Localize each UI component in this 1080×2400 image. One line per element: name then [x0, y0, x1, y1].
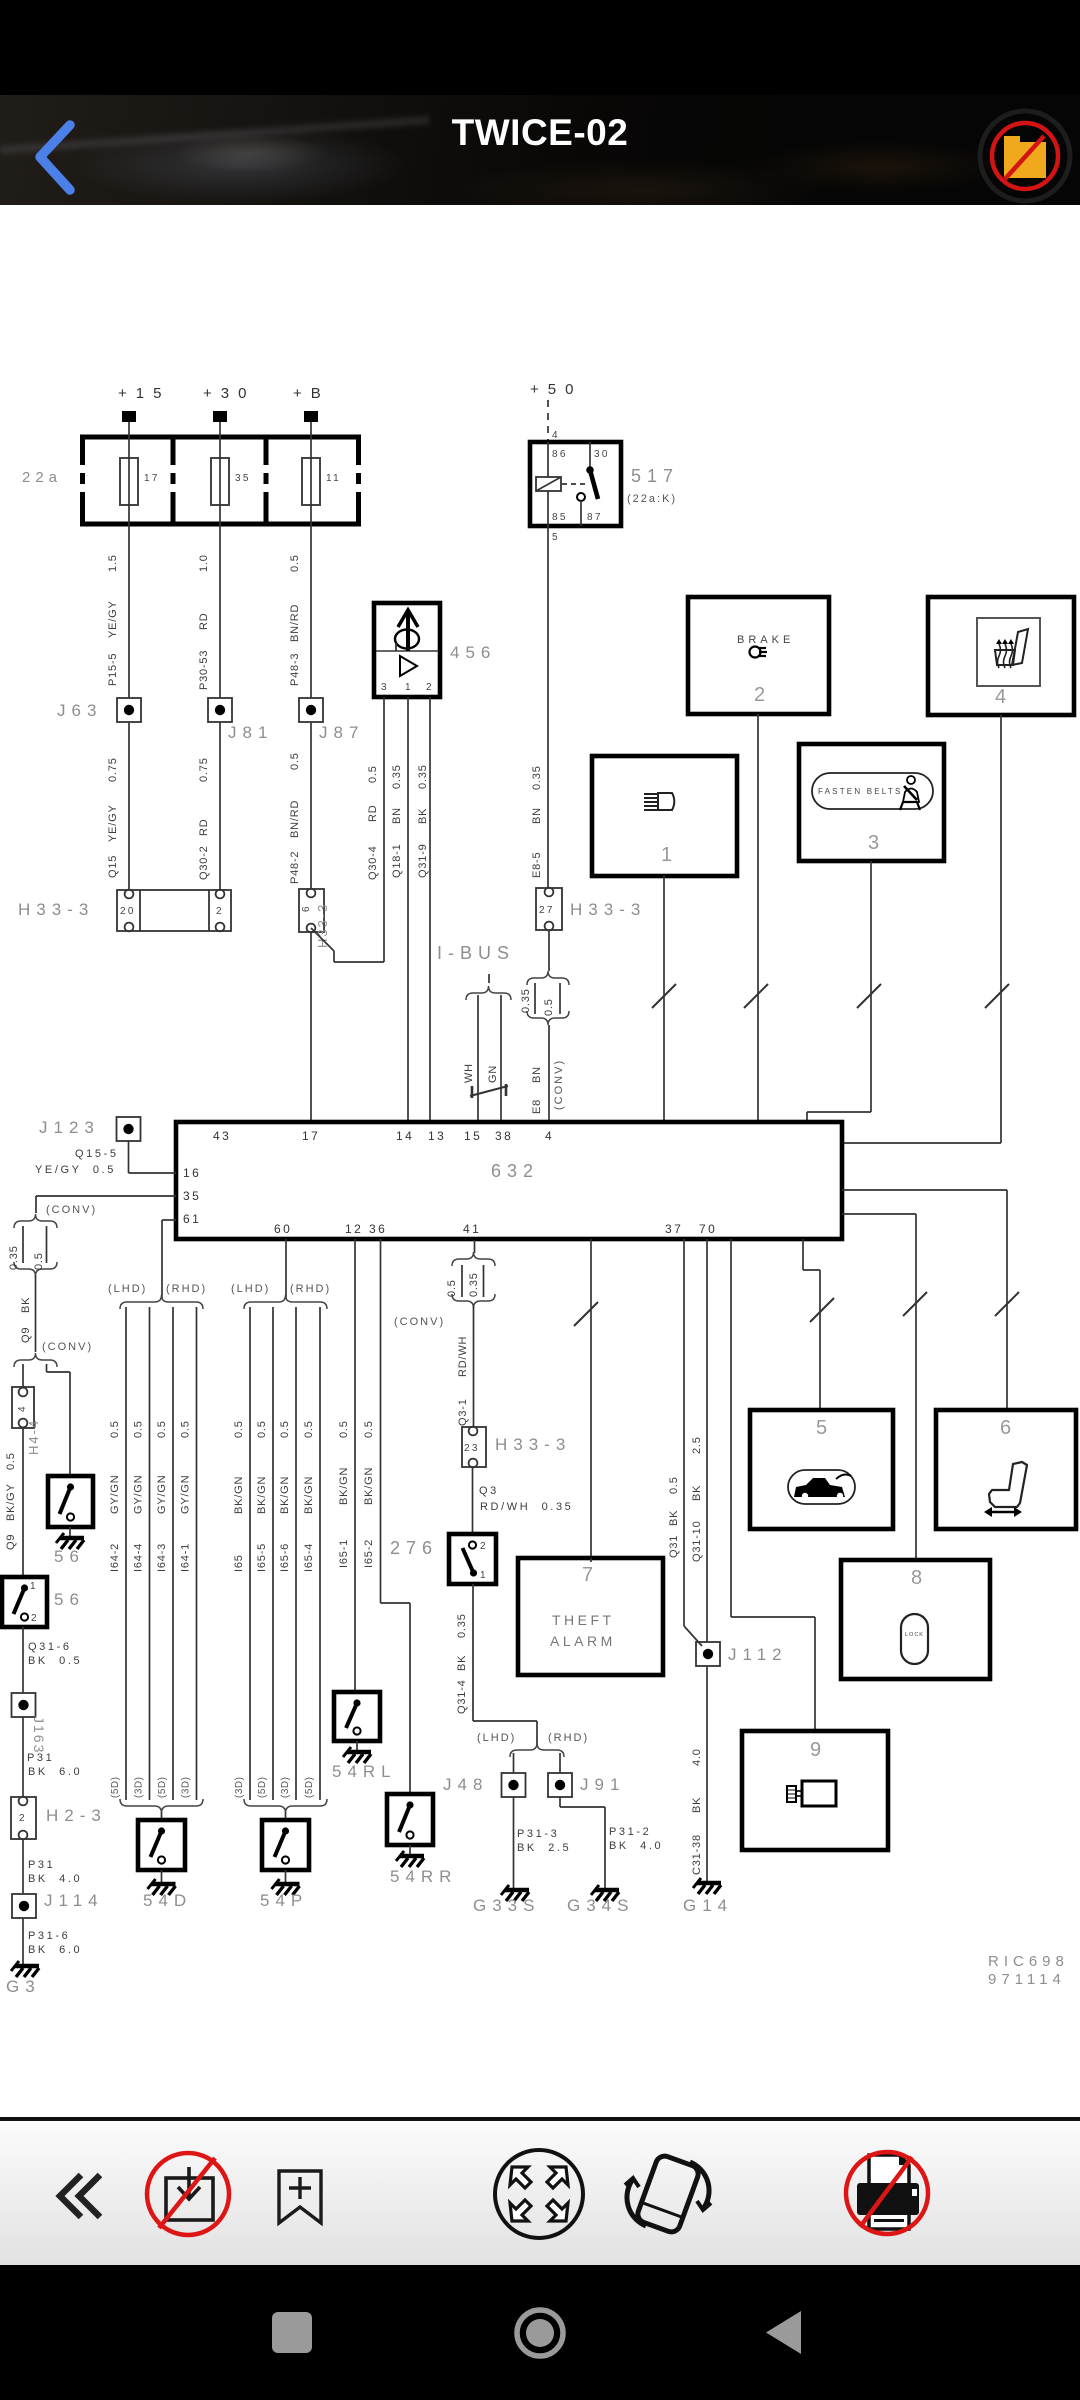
- svg-text:BK/GN: BK/GN: [338, 1467, 350, 1505]
- svg-text:YE/GY: YE/GY: [107, 804, 119, 842]
- wire H33-3 27 to conv brace: [548, 930, 550, 971]
- wire J81 to H33-3: [219, 722, 221, 890]
- ground G14: [693, 1878, 721, 1894]
- wire lamp1 to 632 top: [652, 876, 676, 1122]
- wire I64 group door switch I64-4: [133, 1307, 150, 1800]
- svg-text:0.5: 0.5: [33, 1252, 45, 1270]
- svg-text:RIC698: RIC698: [988, 1953, 1069, 1970]
- svg-text:P31-2: P31-2: [609, 1826, 651, 1838]
- wire I64 group door switch I64-2: [109, 1307, 126, 1800]
- svg-text:2: 2: [216, 906, 224, 917]
- svg-text:RD: RD: [367, 805, 379, 823]
- svg-text:I65-5: I65-5: [256, 1543, 268, 1572]
- svg-text:+B: +B: [293, 385, 330, 402]
- svg-text:J91: J91: [580, 1775, 625, 1794]
- lamp box 1 headlight indicator: [592, 756, 737, 876]
- svg-text:23: 23: [464, 1443, 480, 1454]
- svg-text:RD/WH 0.35: RD/WH 0.35: [480, 1501, 573, 1513]
- svg-text:Q9: Q9: [20, 1327, 32, 1343]
- wire J123 to 632 pin16: [129, 1141, 177, 1173]
- connector H33-3 pin 6 (J87 wire): [299, 889, 324, 933]
- svg-text:3: 3: [868, 832, 879, 854]
- splice J123: [117, 1117, 141, 1141]
- svg-text:86: 86: [552, 449, 568, 460]
- ground G3: [11, 1961, 39, 1977]
- fuse box 22a: [80, 435, 361, 526]
- wire I65 group door switch I65-5: [256, 1307, 273, 1800]
- switch 276 pins 2/1: [449, 1534, 496, 1584]
- brace group1 merge: [120, 1799, 203, 1820]
- label wire BK 0.35 Q31-9: [417, 764, 429, 878]
- svg-text:BN: BN: [531, 1066, 543, 1083]
- wire J91 to G34S: [560, 1797, 605, 1888]
- wire 632 pin70 through J112: [691, 1239, 707, 1642]
- svg-text:Q18-1: Q18-1: [391, 843, 403, 878]
- svg-text:BN/RD: BN/RD: [289, 800, 301, 838]
- svg-text:G34S: G34S: [567, 1896, 634, 1915]
- svg-text:J123: J123: [39, 1118, 100, 1137]
- splice J87: [299, 698, 323, 722]
- svg-text:0.5: 0.5: [180, 1420, 192, 1438]
- svg-text:GY/GN: GY/GN: [156, 1475, 168, 1514]
- wire I65 group door switch I65-6: [279, 1307, 296, 1800]
- label wire BN 0.35 E8-5: [531, 765, 543, 878]
- svg-text:I64-3: I64-3: [156, 1543, 168, 1572]
- svg-text:Q3: Q3: [479, 1485, 499, 1497]
- labels (LHD)(RHD) group1: [108, 1283, 207, 1295]
- svg-text:I65-2: I65-2: [363, 1539, 375, 1568]
- svg-text:0.5: 0.5: [446, 1279, 458, 1297]
- svg-text:Q9: Q9: [5, 1534, 17, 1550]
- wire 456 pin3 branch to H33-3 pin6: [311, 697, 384, 962]
- splice J112: [696, 1642, 720, 1666]
- svg-text:FASTEN BELTS: FASTEN BELTS: [818, 787, 903, 796]
- wire left stub to H4-4: [22, 1364, 24, 1387]
- wire J114 to G3: [22, 1918, 24, 1964]
- svg-text:RD/WH: RD/WH: [457, 1336, 469, 1377]
- svg-text:I65-4: I65-4: [303, 1543, 315, 1572]
- svg-text:0.5: 0.5: [289, 752, 301, 770]
- wire J87 to H33-3: [310, 722, 312, 889]
- svg-text:Q31: Q31: [668, 1535, 680, 1558]
- wire +15 to J63: [128, 422, 130, 698]
- svg-text:P31: P31: [28, 1859, 55, 1871]
- svg-text:6: 6: [301, 904, 312, 912]
- lamp box 4 heated seat indicator: [928, 597, 1074, 715]
- svg-text:(3D): (3D): [234, 1777, 245, 1798]
- svg-text:6: 6: [1000, 1417, 1011, 1439]
- svg-text:C31-38: C31-38: [691, 1834, 703, 1875]
- splice J114: [12, 1894, 36, 1918]
- svg-text:0.5: 0.5: [233, 1420, 245, 1438]
- svg-text:12: 12: [345, 1222, 363, 1236]
- splice J91: [548, 1773, 572, 1797]
- svg-text:0.75: 0.75: [198, 757, 210, 782]
- switch 54RL rear left door: [334, 1692, 380, 1741]
- fuse 17: [120, 458, 160, 505]
- wire 276 to LHD/RHD brace: [456, 1584, 537, 1746]
- wire J112 to G14: [691, 1666, 707, 1881]
- wire H33-3 to switch 276: [472, 1467, 474, 1534]
- svg-text:BK 0.5: BK 0.5: [28, 1655, 82, 1667]
- svg-text:YE/GY: YE/GY: [107, 600, 119, 638]
- svg-text:15: 15: [464, 1129, 482, 1143]
- svg-text:ALARM: ALARM: [550, 1633, 616, 1649]
- svg-text:0.5: 0.5: [338, 1420, 350, 1438]
- wire right stub to switch 56 upper: [47, 1364, 71, 1476]
- label wire BN E8 (CONV): [531, 1059, 565, 1114]
- svg-text:P31-3: P31-3: [517, 1828, 559, 1840]
- svg-text:0.35: 0.35: [531, 765, 543, 790]
- svg-text:G14: G14: [683, 1896, 733, 1915]
- ground G33S: [501, 1885, 529, 1901]
- svg-text:BN: BN: [531, 807, 543, 824]
- svg-text:BK: BK: [417, 808, 429, 824]
- svg-text:0.5: 0.5: [363, 1420, 375, 1438]
- theft alarm box 7: [518, 1558, 663, 1675]
- svg-text:(LHD): (LHD): [477, 1732, 516, 1744]
- labels (LHD)(RHD) J48/J91: [477, 1732, 589, 1744]
- wire 632 to box5: [803, 1239, 834, 1410]
- svg-text:J81: J81: [228, 723, 273, 742]
- svg-text:35: 35: [235, 473, 251, 484]
- svg-text:H33-3: H33-3: [315, 903, 330, 948]
- svg-text:H4-4: H4-4: [26, 1419, 41, 1455]
- svg-text:BK: BK: [456, 1655, 468, 1671]
- wire J163 to H2-3: [22, 1717, 24, 1797]
- svg-text:7: 7: [582, 1564, 593, 1586]
- svg-text:(RHD): (RHD): [290, 1283, 331, 1295]
- svg-text:0.35: 0.35: [520, 988, 532, 1013]
- svg-text:GY/GN: GY/GN: [109, 1475, 121, 1514]
- label P31 BK 6.0: [27, 1752, 82, 1778]
- svg-text:BK/GN: BK/GN: [279, 1476, 291, 1514]
- svg-text:4.0: 4.0: [691, 1748, 703, 1766]
- svg-text:BK/GN: BK/GN: [303, 1476, 315, 1514]
- svg-text:GY/GN: GY/GN: [133, 1475, 145, 1514]
- svg-text:Q15-5: Q15-5: [75, 1148, 119, 1160]
- svg-text:GY/GN: GY/GN: [180, 1475, 192, 1514]
- svg-text:0.5: 0.5: [109, 1420, 121, 1438]
- svg-text:Q31-10: Q31-10: [691, 1521, 703, 1563]
- svg-text:0.5: 0.5: [543, 998, 555, 1016]
- wire to J48: [513, 1753, 515, 1773]
- svg-text:0.5: 0.5: [279, 1420, 291, 1438]
- wire 632 right to box6: [842, 1190, 1019, 1410]
- ground below 54P: [272, 1870, 300, 1895]
- splice J48: [502, 1773, 526, 1797]
- svg-text:J114: J114: [44, 1891, 104, 1910]
- label P31 BK 4.0: [28, 1859, 82, 1885]
- wire lamp3 to 632 top: [807, 861, 881, 1122]
- wire brace to H33-3 23: [457, 1306, 474, 1427]
- svg-text:87: 87: [587, 512, 603, 523]
- svg-text:G33S: G33S: [473, 1896, 540, 1915]
- svg-text:16: 16: [183, 1166, 201, 1180]
- svg-text:1.5: 1.5: [107, 554, 119, 572]
- svg-text:17: 17: [302, 1129, 320, 1143]
- wire 632 pin12 to 54RL: [338, 1239, 355, 1692]
- svg-text:(RHD): (RHD): [166, 1283, 207, 1295]
- label wire BK Q9: [20, 1297, 32, 1343]
- brace pair left conv alternatives: [8, 1214, 57, 1276]
- svg-text:54RL: 54RL: [332, 1762, 397, 1781]
- svg-text:54D: 54D: [143, 1891, 192, 1910]
- svg-text:BK: BK: [691, 1485, 703, 1501]
- svg-text:14: 14: [396, 1129, 414, 1143]
- svg-text:P31-6: P31-6: [28, 1930, 70, 1942]
- svg-text:I64-1: I64-1: [180, 1543, 192, 1572]
- wire lamp2 to 632 top: [744, 714, 768, 1122]
- label Q15-5 YE/GY 0.5: [35, 1148, 119, 1176]
- svg-text:0.75: 0.75: [107, 757, 119, 782]
- svg-text:61: 61: [183, 1212, 201, 1226]
- svg-text:Q15: Q15: [107, 855, 119, 878]
- wire I-BUS WH to 632 pin15: [477, 995, 479, 1122]
- svg-text:56: 56: [54, 1547, 85, 1566]
- svg-text:BK/GN: BK/GN: [256, 1476, 268, 1514]
- lamp box 3 FASTEN BELTS indicator: [799, 744, 944, 861]
- svg-text:P48-2: P48-2: [289, 851, 301, 884]
- svg-text:RD: RD: [198, 613, 210, 631]
- svg-text:2: 2: [754, 684, 765, 706]
- svg-text:4: 4: [17, 1404, 28, 1412]
- svg-text:85: 85: [552, 512, 568, 523]
- svg-text:0.5: 0.5: [367, 765, 379, 783]
- wire 632 pin61 to group1 brace: [162, 1220, 176, 1298]
- svg-text:E8-5: E8-5: [531, 852, 543, 878]
- I-BUS brace: [466, 974, 511, 1000]
- wire 632 pin36 to 54RR: [363, 1239, 410, 1794]
- svg-text:I65-6: I65-6: [279, 1543, 291, 1572]
- svg-text:H33-3: H33-3: [570, 900, 646, 919]
- brace group2 split: [244, 1295, 327, 1309]
- label wire BN 0.35 Q18-1: [391, 764, 403, 878]
- wire I-BUS GN to 632 pin38: [500, 995, 502, 1122]
- wire 632 right to box8: [842, 1214, 927, 1560]
- svg-text:P48-3: P48-3: [289, 653, 301, 686]
- svg-text:43: 43: [213, 1129, 231, 1143]
- label wire RD 0.5 Q30-4: [367, 765, 379, 880]
- svg-text:Q31-4: Q31-4: [456, 1679, 468, 1714]
- connector H33-3 pin 27: [536, 888, 562, 931]
- svg-text:56: 56: [54, 1590, 85, 1609]
- splice J63: [117, 698, 141, 722]
- svg-text:456: 456: [450, 643, 496, 662]
- wire H2-3 to J114: [22, 1839, 24, 1894]
- svg-text:I65: I65: [233, 1554, 245, 1572]
- svg-text:BRAKE: BRAKE: [737, 634, 794, 646]
- svg-text:35: 35: [183, 1189, 201, 1203]
- svg-text:41: 41: [463, 1222, 481, 1236]
- svg-text:0.5: 0.5: [668, 1476, 680, 1494]
- svg-text:J163: J163: [31, 1716, 47, 1754]
- box 8 lock: [841, 1560, 990, 1679]
- svg-text:J48: J48: [443, 1775, 488, 1794]
- svg-text:38: 38: [495, 1129, 513, 1143]
- connector H2-3 pin 2: [11, 1797, 36, 1840]
- svg-text:0.5: 0.5: [133, 1420, 145, 1438]
- svg-text:I64-4: I64-4: [133, 1543, 145, 1572]
- wire H4-4 to switch 56 lower: [22, 1428, 24, 1577]
- wire J48 to G33S: [513, 1797, 515, 1888]
- connector H33-3 pins 20/2: [117, 890, 231, 932]
- fuse 35: [211, 458, 251, 505]
- switch 56 upper hood: [48, 1476, 93, 1527]
- wire 632 pin37 to J112: [668, 1239, 702, 1646]
- wire 456 pin1 to 632 pin14: [407, 697, 409, 1122]
- wire to J91: [559, 1753, 561, 1773]
- svg-text:BK 6.0: BK 6.0: [28, 1766, 82, 1778]
- svg-text:30: 30: [594, 449, 610, 460]
- svg-text:Q30-4: Q30-4: [367, 845, 379, 880]
- terminal square +30: [213, 411, 227, 422]
- label P31-6 BK 6.0: [28, 1930, 82, 1956]
- svg-text:P30-53: P30-53: [198, 650, 210, 690]
- box 9 lock motor: [742, 1731, 888, 1850]
- svg-text:0.5: 0.5: [289, 554, 301, 572]
- connector H4-4 pin 4: [12, 1387, 34, 1428]
- label Q31-6 BK 0.5: [28, 1641, 82, 1667]
- lamp box 2 BRAKE indicator: [688, 597, 829, 714]
- terminal square +B: [304, 411, 318, 422]
- svg-text:17: 17: [144, 473, 160, 484]
- svg-text:(5D): (5D): [157, 1777, 168, 1798]
- svg-text:YE/GY 0.5: YE/GY 0.5: [35, 1164, 116, 1176]
- svg-text:22a: 22a: [22, 469, 62, 486]
- svg-text:Q31-6: Q31-6: [28, 1641, 72, 1653]
- svg-text:I65-1: I65-1: [338, 1539, 350, 1568]
- label Q3 RD/WH 0.35: [479, 1485, 573, 1513]
- brace J48/J91 split: [510, 1743, 564, 1757]
- svg-text:(22a:K): (22a:K): [627, 493, 677, 505]
- brace pair pin41 conv alternatives: [446, 1252, 495, 1308]
- wire +50 dashed to relay 517: [547, 400, 549, 442]
- svg-text:1: 1: [405, 682, 413, 693]
- svg-text:1: 1: [661, 844, 672, 866]
- svg-text:H33-3: H33-3: [18, 900, 94, 919]
- svg-text:2: 2: [426, 682, 434, 693]
- svg-text:I-BUS: I-BUS: [437, 943, 515, 963]
- svg-text:276: 276: [390, 1538, 438, 1558]
- svg-text:BK 4.0: BK 4.0: [609, 1840, 663, 1852]
- wire I64 group door switch I64-1: [180, 1307, 197, 1800]
- splice J81: [208, 698, 232, 722]
- wire conv merged down: [35, 1275, 37, 1352]
- splice J163: [12, 1693, 36, 1717]
- svg-text:0.5: 0.5: [5, 1452, 17, 1470]
- wire 456 pin2 to 632 pin13: [429, 697, 431, 1122]
- svg-text:3: 3: [381, 682, 389, 693]
- label wire BN/RD 0.5 P48-3: [289, 554, 301, 686]
- svg-text:5: 5: [816, 1417, 827, 1439]
- wire 56 to J163: [22, 1627, 24, 1693]
- wire 632 to box9: [731, 1239, 815, 1731]
- svg-text:RD: RD: [198, 819, 210, 837]
- brace pair E8 (CONV) alternatives: [520, 971, 569, 1025]
- svg-text:I64-2: I64-2: [109, 1543, 121, 1572]
- svg-text:BK/GN: BK/GN: [363, 1467, 375, 1505]
- box 5 trunk release: [750, 1410, 893, 1529]
- svg-text:70: 70: [699, 1222, 717, 1236]
- ground below 56 upper: [56, 1527, 84, 1549]
- wire 632 pin60 to group2 brace: [285, 1239, 287, 1298]
- svg-text:27: 27: [539, 905, 555, 916]
- svg-text:(LHD): (LHD): [231, 1283, 270, 1295]
- svg-text:J112: J112: [728, 1645, 788, 1664]
- svg-text:WH: WH: [463, 1063, 475, 1083]
- svg-text:BK 6.0: BK 6.0: [28, 1944, 82, 1956]
- svg-text:(CONV): (CONV): [46, 1204, 97, 1216]
- label P31-3 BK 2.5: [517, 1828, 571, 1854]
- svg-text:54P: 54P: [260, 1891, 308, 1910]
- ground below 54RR: [396, 1845, 424, 1867]
- svg-text:(5D): (5D): [110, 1777, 121, 1798]
- wire +B to J87: [310, 422, 312, 698]
- svg-text:2: 2: [19, 1813, 27, 1824]
- switch 54P passenger door: [262, 1820, 309, 1870]
- svg-text:G3: G3: [6, 1977, 41, 1996]
- connector H33-3 pin 23: [462, 1427, 486, 1468]
- wire I65 group door switch I65-4: [303, 1307, 320, 1800]
- svg-text:(RHD): (RHD): [548, 1732, 589, 1744]
- component 456 interior sensor: [374, 603, 440, 697]
- svg-text:(5D): (5D): [304, 1777, 315, 1798]
- svg-text:(CONV): (CONV): [553, 1059, 565, 1110]
- svg-text:1.0: 1.0: [198, 554, 210, 572]
- svg-text:J63: J63: [57, 701, 102, 720]
- svg-text:+15: +15: [118, 385, 170, 402]
- svg-text:Q31-9: Q31-9: [417, 843, 429, 878]
- wire J63 to H33-3: [128, 722, 130, 890]
- box 6 seat adjust: [936, 1410, 1076, 1529]
- ground G34S: [591, 1885, 619, 1901]
- wire lamp4 to 632 right: [842, 715, 1009, 1143]
- label wire YE/GY 0.75 Q15: [107, 757, 119, 878]
- svg-text:BK: BK: [691, 1797, 703, 1813]
- svg-text:0.35: 0.35: [468, 1272, 480, 1297]
- svg-text:BK: BK: [668, 1510, 680, 1526]
- switch 54D driver door: [138, 1820, 185, 1870]
- svg-text:0.35: 0.35: [456, 1613, 468, 1638]
- svg-text:0.5: 0.5: [256, 1420, 268, 1438]
- svg-text:4: 4: [545, 1129, 554, 1143]
- label wire BN/RD 0.5 P48-2: [289, 752, 301, 884]
- switch 56 lower hood pins 1/2: [2, 1577, 47, 1627]
- svg-text:20: 20: [120, 906, 136, 917]
- svg-text:BK: BK: [20, 1297, 32, 1313]
- svg-text:11: 11: [326, 473, 341, 484]
- svg-text:13: 13: [428, 1129, 446, 1143]
- wire I65 group door switch I65: [233, 1307, 250, 1800]
- svg-text:(3D): (3D): [134, 1777, 145, 1798]
- terminal square +15: [122, 411, 136, 422]
- label P31-2 BK 4.0: [609, 1826, 663, 1852]
- wire I64 group door switch I64-3: [156, 1307, 173, 1800]
- wire to 632 pin4: [548, 1025, 550, 1122]
- svg-text:(CONV): (CONV): [394, 1316, 445, 1328]
- svg-text:0.35: 0.35: [417, 764, 429, 789]
- wire H33-3 pin6 to 632 pin17: [310, 932, 312, 1122]
- twisted pair symbol: [470, 1084, 508, 1098]
- svg-text:517: 517: [631, 466, 679, 486]
- svg-text:5: 5: [552, 532, 560, 543]
- wire 632 pin35 to left conv brace: [36, 1196, 176, 1213]
- labels (LHD)(RHD) group2: [231, 1283, 331, 1295]
- svg-text:GN: GN: [487, 1065, 499, 1083]
- ECU box 632: [176, 1122, 842, 1239]
- brace group1 split: [120, 1295, 203, 1309]
